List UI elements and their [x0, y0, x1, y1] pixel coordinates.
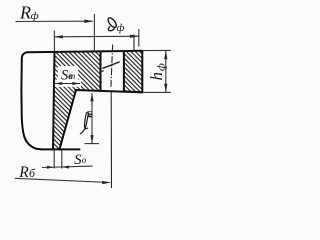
hatched right block — [124, 51, 142, 92]
l_vt down arrow — [90, 135, 93, 143]
dimension lines — [15, 14, 171, 183]
svg-text:R: R — [18, 164, 29, 181]
svg-text:o: o — [82, 155, 87, 165]
R_b leader — [15, 178, 110, 182]
svg-text:R: R — [19, 3, 31, 23]
bottom break line — [42, 148, 80, 150]
S_o exts — [53, 150, 55, 169]
bolt axis dash-dot in hole — [111, 45, 113, 89]
h_f up arrow — [164, 51, 167, 60]
wall right taper — [60, 90, 77, 149]
block bottom — [124, 90, 142, 93]
l_vt dim — [91, 93, 93, 143]
S_o leader line — [42, 166, 93, 167]
v_f dim line — [54, 35, 138, 38]
svg-text:ф: ф — [31, 10, 39, 22]
centerlines — [111, 35, 134, 189]
svg-text:ф: ф — [117, 22, 125, 34]
svg-text:б: б — [29, 166, 36, 180]
bolt diagonal mark — [103, 62, 119, 68]
outer contour — [21, 52, 41, 149]
svg-text:ф: ф — [156, 63, 168, 71]
S_vt label white box — [58, 66, 78, 80]
svg-text:вт: вт — [84, 110, 94, 118]
v_f right ext — [138, 29, 140, 47]
h_f exts — [142, 49, 171, 51]
v_f right arrow — [130, 35, 139, 38]
block right edge — [141, 51, 143, 92]
S_o right-pointing arrow — [47, 166, 54, 169]
arrows — [47, 20, 167, 185]
svg-text:h: h — [147, 72, 166, 81]
S_vt left arrow — [54, 82, 62, 85]
l_vt up arrow — [90, 93, 93, 101]
v_f custom cursive 'в' — [107, 16, 118, 28]
main outlines — [21, 51, 142, 150]
h_f rotated — [147, 63, 168, 81]
hatched flange+wall region — [53, 52, 101, 150]
S_vt dim — [55, 83, 81, 85]
R_f extension — [93, 14, 95, 52]
R_b arrow — [102, 181, 110, 184]
l_vt rotated — [80, 112, 88, 134]
hole left edge — [100, 52, 102, 91]
flange bottom edge — [76, 90, 143, 92]
flange top edge — [27, 51, 142, 52]
h_f down arrow — [164, 84, 167, 93]
R_f leader — [16, 20, 93, 22]
svg-text:вт: вт — [68, 71, 76, 81]
S_o left-pointing arrow — [62, 166, 69, 169]
hole right edge / block left — [123, 51, 125, 91]
axis extension solid — [110, 92, 112, 188]
R_f arrow right — [84, 20, 93, 24]
block centerline — [133, 35, 135, 52]
h_f dim — [165, 51, 167, 93]
S_vt right arrow — [72, 82, 80, 85]
wall left edge — [53, 52, 55, 150]
l_vt bottom ext — [85, 143, 100, 145]
v_f left ext — [53, 31, 55, 52]
v_f left arrow — [54, 35, 63, 38]
